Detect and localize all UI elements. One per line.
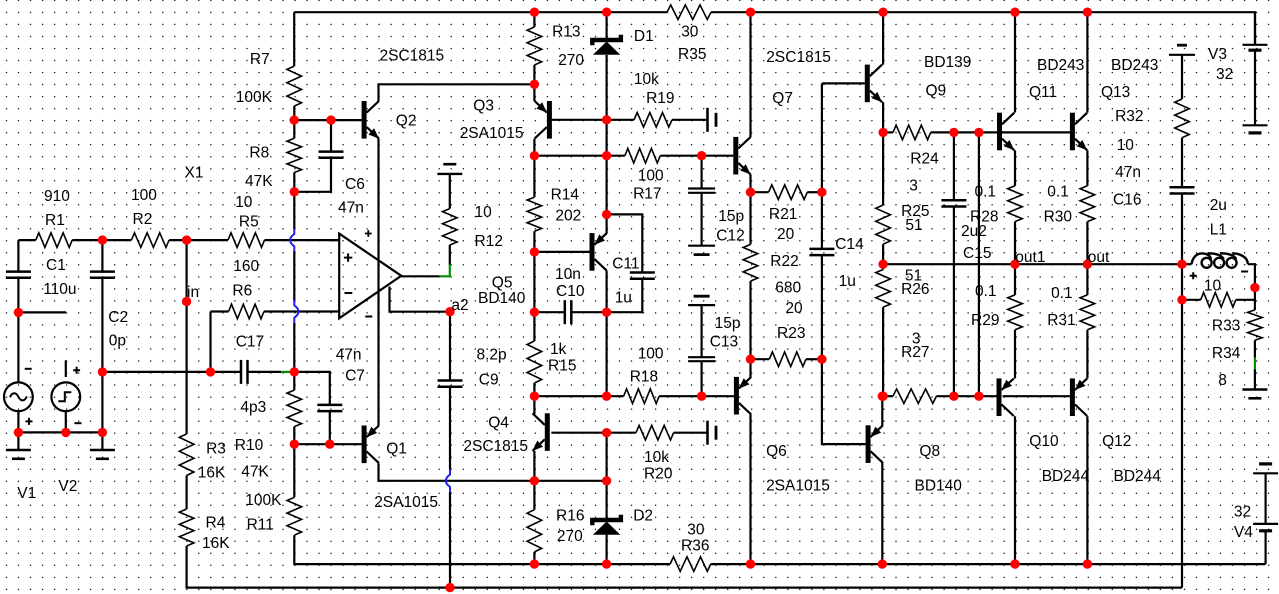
wire Q9 collector lead [882, 12, 884, 64]
junction R16 rail A [530, 559, 539, 568]
svg-text:R27: R27 [901, 344, 929, 361]
wire R11 top lead [293, 444, 295, 497]
junction V2 ground row [61, 428, 70, 437]
svg-text:R30: R30 [1044, 209, 1073, 226]
battery V4 [1253, 464, 1278, 531]
svg-text:15p: 15p [715, 315, 741, 332]
svg-text:R19: R19 [646, 90, 674, 107]
svg-text:C11: C11 [612, 256, 639, 273]
svg-text:100: 100 [131, 187, 157, 204]
svg-text:R21: R21 [769, 206, 797, 223]
wire R25 top lead [882, 132, 884, 205]
capacitor C10 [565, 300, 572, 324]
wire R24 lead right [931, 131, 954, 133]
wire left rail down to R7 [293, 12, 295, 66]
wire Q12 collector lead [1086, 416, 1088, 564]
wire Q2 emitter down through op-amp [377, 139, 379, 426]
transistor Q6 [734, 377, 739, 415]
transistor Q12 [1070, 378, 1075, 416]
svg-text:0p: 0p [109, 333, 126, 350]
svg-text:R8: R8 [249, 145, 269, 162]
svg-text:V4: V4 [1234, 524, 1253, 541]
wire R29 bottom lead [1014, 330, 1016, 379]
transistor Q9 [865, 65, 870, 103]
svg-text:10k: 10k [634, 71, 659, 88]
wire Q9 base lead [822, 82, 865, 84]
svg-text:51: 51 [905, 217, 922, 234]
svg-text:C6: C6 [345, 176, 365, 193]
svg-text:10: 10 [235, 194, 253, 211]
wire R23 lead right [806, 358, 822, 360]
junction C10 right Q5 collector [602, 308, 611, 317]
wire base row Q2 [294, 119, 361, 121]
svg-text:Q3: Q3 [473, 98, 494, 115]
svg-text:R35: R35 [678, 46, 706, 63]
svg-text:16K: 16K [198, 465, 226, 482]
wire L1 lead left [1182, 263, 1192, 265]
wire R24 node to Q11 base node [954, 131, 979, 133]
svg-text:0.1: 0.1 [1047, 184, 1069, 201]
svg-text:R24: R24 [910, 151, 939, 168]
resistor R22 [743, 244, 758, 281]
wire V2 top stub [65, 360, 67, 377]
svg-text:C1: C1 [46, 257, 66, 274]
op-amp X1 inner + sign [344, 253, 352, 261]
svg-text:BD244: BD244 [1042, 468, 1090, 485]
svg-text:0.1: 0.1 [975, 283, 997, 300]
junction R18 row left [602, 392, 611, 401]
wire R10 top lead [293, 372, 295, 390]
svg-text:3: 3 [909, 177, 918, 194]
wire green segment C17 to node [281, 371, 293, 373]
wire R32 chain top lead [1181, 55, 1183, 99]
svg-text:R13: R13 [552, 23, 580, 40]
wire R32 to C16 [1181, 138, 1183, 188]
junction Q2 collector R13 [530, 80, 539, 89]
wire V2 bottom lead [65, 411, 67, 432]
transistor Q11 [997, 113, 1002, 151]
wire R26 bottom lead [882, 307, 884, 396]
wire R22 bottom lead [749, 281, 751, 359]
wire R27 lead right [936, 395, 954, 397]
svg-text:C13: C13 [710, 334, 738, 351]
wire to ground below R33 [1254, 370, 1256, 390]
svg-text:V2: V2 [58, 478, 77, 495]
svg-text:Q7: Q7 [772, 90, 793, 107]
junction Q10 base node [974, 392, 983, 401]
junction R10 Q1 base [290, 440, 299, 449]
wire R30 bottom lead [1086, 222, 1088, 265]
svg-text:20: 20 [777, 226, 795, 243]
wire down to C17 node [293, 323, 295, 372]
plug P1 at R19 [706, 108, 709, 132]
wire Q6 collector lead [749, 415, 751, 565]
resistor R20 [636, 425, 674, 440]
junction C7 Q1 base [325, 440, 334, 449]
svg-text:100K: 100K [245, 492, 282, 509]
svg-text:BD140: BD140 [915, 477, 963, 494]
junction R8 C6 bottom [290, 187, 299, 196]
wire C7 bottom lead [329, 411, 331, 444]
svg-text:30: 30 [687, 522, 705, 539]
capacitor C17 [241, 360, 248, 384]
svg-text:C10: C10 [556, 283, 585, 300]
wire R34 lead right [1236, 299, 1255, 301]
wire out node down to rail B [1181, 264, 1183, 587]
wire Q11 emitter lead [1014, 150, 1016, 186]
capacitor top plate of R32 chain [1169, 45, 1195, 55]
wire R16 top lead [533, 481, 535, 510]
junction D2 top row [602, 476, 611, 485]
wire D1 top lead [605, 12, 607, 38]
svg-text:100: 100 [638, 346, 664, 363]
resistor R30 [1080, 186, 1095, 222]
wire R23 node down to Q8 base [822, 359, 866, 444]
wire R12 bottom lead [449, 245, 451, 265]
wire Q11 base row [979, 131, 1070, 133]
wire Q10 Q12 base row [1003, 395, 1070, 397]
junction D2 rail A [602, 559, 611, 568]
wire Q4 emitter lead [533, 451, 535, 481]
wire R16 bottom lead [533, 552, 535, 564]
wire C2 bottom lead [101, 278, 103, 433]
wire R27 row [883, 395, 893, 397]
wire R21 lead left [751, 191, 769, 193]
wire C15 bottom lead [953, 207, 955, 397]
svg-text:BD140: BD140 [478, 290, 526, 307]
svg-text:C7: C7 [345, 368, 365, 385]
svg-text:R18: R18 [630, 369, 658, 386]
wire C6 top lead [330, 120, 332, 152]
junction R25 out1 row [878, 260, 887, 269]
wire R22 top lead [749, 192, 751, 244]
resistor R32 [1175, 99, 1190, 138]
wire Q5 node down to R18 row [605, 312, 607, 396]
wire R19 lead left [607, 119, 634, 121]
junction R17 row [602, 151, 611, 160]
svg-text:270: 270 [557, 528, 583, 545]
transistor Q3 [547, 101, 552, 139]
wire C13 bottom lead [700, 361, 702, 396]
wire hop at Q1 collector row crossing [446, 469, 450, 492]
junction V1 C1 stub [14, 308, 23, 317]
svg-text:1k: 1k [550, 341, 567, 358]
wire row R15 to R18 [534, 395, 623, 397]
svg-text:C16: C16 [1113, 192, 1141, 209]
junction Q12 collector rail A [1083, 559, 1092, 568]
svg-text:110u: 110u [43, 281, 76, 298]
junction top rail D1 [602, 8, 611, 17]
svg-text:47K: 47K [241, 464, 269, 481]
resistor R33 [1248, 310, 1263, 340]
wire Q2 collector to R13 node [379, 84, 535, 101]
capacitor C14 [809, 249, 834, 255]
resistor R23 [769, 352, 806, 367]
svg-text:Q9: Q9 [926, 83, 947, 100]
wire ground row V1 V2 C2 [18, 431, 102, 433]
transistor Q10 [997, 378, 1002, 416]
junction top rail Q13 [1083, 8, 1092, 17]
resistor R24 [893, 125, 931, 140]
svg-text:R15: R15 [548, 358, 576, 375]
svg-text:D2: D2 [633, 508, 653, 525]
svg-text:R2: R2 [133, 211, 153, 228]
junction in node [182, 297, 191, 306]
wire top rail right of R35 [711, 12, 1255, 45]
junction C2 ground [98, 428, 107, 437]
junction C13 bottom [697, 392, 706, 401]
svg-text:C9: C9 [479, 372, 499, 389]
wire R24 lead left [883, 131, 893, 133]
junction R14 Q5 base [530, 247, 539, 256]
wire stub V1 node to right [18, 311, 66, 313]
wire C14 bottom lead [821, 255, 823, 359]
svg-text:10k: 10k [644, 449, 669, 466]
svg-text:32: 32 [1234, 504, 1251, 521]
wire Q3 collector lead [533, 139, 535, 156]
transistor Q4 [545, 413, 550, 451]
resistor R15 [527, 341, 542, 383]
resistor R4 [179, 509, 194, 546]
svg-text:Q4: Q4 [488, 415, 509, 432]
wire C6 bottom lead [294, 158, 331, 192]
wire R17 lead left [607, 155, 625, 157]
svg-text:2u2: 2u2 [961, 223, 987, 240]
svg-text:8: 8 [1218, 372, 1227, 389]
wire Q5 collector lead [605, 271, 607, 313]
capacitor C6 [319, 152, 344, 158]
svg-text:BD139: BD139 [924, 54, 971, 71]
svg-text:R16: R16 [556, 508, 584, 525]
junction top rail Q9 [878, 8, 887, 17]
resistor R19 [634, 113, 672, 128]
wire Q8 collector lead [881, 463, 883, 564]
svg-text:BD243: BD243 [1111, 57, 1158, 74]
wire R31 bottom lead [1086, 330, 1088, 379]
resistor R16 [527, 510, 542, 552]
ground above R12 [443, 163, 456, 166]
wire R15 top lead [533, 312, 535, 341]
junction Q8 emitter row [878, 392, 887, 401]
svg-text:Q8: Q8 [919, 443, 940, 460]
svg-text:32: 32 [1216, 66, 1233, 83]
wire Q3 emitter lead [533, 84, 535, 101]
wire Q4 collector lead [533, 396, 535, 414]
resistor R34 [1201, 293, 1236, 308]
svg-text:R11: R11 [247, 517, 274, 534]
voltage source V1 + sign [26, 418, 33, 425]
junction D1 R19 Q3 base [602, 115, 611, 124]
wire D1 node down to Q5 node [605, 120, 607, 215]
wire C10 lead left [534, 311, 564, 313]
resistor R35 [667, 5, 711, 20]
svg-text:0.1: 0.1 [1051, 285, 1073, 302]
svg-text:Q11: Q11 [1029, 84, 1057, 101]
svg-text:BD244: BD244 [1114, 468, 1162, 485]
wire R5 to op-amp + input [265, 239, 340, 241]
junction R21 C14 [817, 188, 826, 197]
svg-text:100K: 100K [236, 89, 273, 106]
voltage source V2 [51, 382, 80, 411]
junction Q3 collector row [530, 151, 539, 160]
junction C10 row left [530, 308, 539, 317]
svg-text:L1: L1 [1210, 221, 1227, 238]
wire op-amp V- branch to a2 [390, 287, 451, 312]
wire row Q3C to R17 [534, 155, 606, 157]
junction C17 R10 node [290, 367, 299, 376]
junction Q8 collector rail A [878, 559, 887, 568]
svg-text:30: 30 [681, 23, 699, 40]
wire C15 top lead [953, 132, 955, 200]
capacitor C13 [688, 296, 715, 361]
wire out1 row left [883, 263, 1015, 265]
svg-text:4p3: 4p3 [240, 399, 266, 416]
svg-text:Q2: Q2 [396, 112, 417, 129]
svg-text:R26: R26 [901, 281, 929, 298]
svg-text:R29: R29 [971, 312, 999, 329]
wire R8 to node [293, 173, 295, 230]
svg-text:R32: R32 [1115, 108, 1143, 125]
svg-text:Q5: Q5 [492, 275, 513, 292]
svg-text:a2: a2 [451, 297, 468, 314]
svg-text:C14: C14 [835, 236, 864, 253]
junction input R1 R2 C2 [98, 235, 107, 244]
resistor R36 [670, 557, 711, 572]
resistor R7 [287, 66, 302, 106]
transistor Q2 [362, 101, 367, 139]
resistor R11 [287, 497, 302, 535]
junction R15 bottom row [530, 392, 539, 401]
svg-text:R14: R14 [551, 187, 580, 204]
svg-text:R3: R3 [206, 440, 226, 457]
svg-text:Q13: Q13 [1101, 84, 1130, 101]
wire R18 to C13 node [659, 395, 701, 397]
op-amp X1 outer + sign [365, 230, 372, 237]
svg-text:D1: D1 [634, 28, 654, 45]
wire D2 top lead [605, 481, 607, 519]
resistor R25 [876, 205, 891, 244]
junction out [1083, 260, 1092, 269]
svg-text:10n: 10n [555, 266, 581, 283]
wire R20 lead right [674, 432, 708, 434]
svg-text:47n: 47n [1115, 164, 1141, 181]
junction Q4 base R20 [602, 428, 611, 437]
wire C13 node to Q6 base [702, 395, 734, 397]
svg-text:1u: 1u [839, 273, 856, 290]
wire R25 bottom lead [882, 244, 884, 264]
svg-text:V3: V3 [1208, 46, 1227, 63]
svg-text:47n: 47n [338, 200, 364, 217]
transistor Q13 [1070, 113, 1075, 151]
resistor R10 [287, 390, 302, 427]
svg-text:2SA1015: 2SA1015 [766, 477, 830, 494]
svg-text:10: 10 [475, 204, 493, 221]
svg-text:R1: R1 [45, 212, 65, 229]
diode D2 [592, 515, 621, 526]
wire op-amp + input lead [330, 239, 339, 241]
wire V4 bottom lead [1264, 531, 1266, 564]
capacitor C2 [90, 272, 115, 278]
svg-text:R20: R20 [644, 466, 673, 483]
junction R34 row [1177, 295, 1186, 304]
battery V3 [1243, 45, 1268, 133]
inductor L1 + sign [1190, 272, 1197, 279]
svg-text:202: 202 [555, 208, 581, 225]
transistor Q5 [590, 233, 595, 271]
wire R33 bottom lead [1254, 340, 1256, 358]
wire row Q4 emitter to D2 [534, 480, 606, 482]
ground under R33 [1254, 388, 1256, 390]
wire Q13 emitter lead [1086, 150, 1088, 186]
resistor R5 [228, 233, 265, 248]
junction C12 top [697, 151, 706, 160]
junction R7 R8 [290, 115, 299, 124]
resistor R18 [624, 389, 660, 404]
wire R3 to R4 [186, 476, 188, 510]
resistor R2 [131, 233, 169, 248]
op-amp X1 [339, 234, 401, 319]
svg-text:Q1: Q1 [386, 441, 407, 458]
wire Q13 collector lead [1086, 12, 1088, 112]
svg-text:2SA1015: 2SA1015 [460, 125, 524, 142]
resistor R14 [527, 197, 542, 231]
svg-text:2SC1815: 2SC1815 [766, 49, 831, 66]
wire C9 lead below [449, 387, 451, 470]
junction Q10 collector rail A [1010, 559, 1019, 568]
wire C17 right lead [248, 371, 282, 373]
resistor R12 [443, 209, 458, 245]
junction V1 ground [14, 428, 23, 437]
junction L1 R33 [1250, 283, 1259, 292]
wire R20 lead left [607, 432, 636, 434]
wire out row right [1087, 263, 1182, 265]
svg-text:910: 910 [44, 188, 70, 205]
junction Q6 collector rail A [746, 559, 755, 568]
wire D2 bottom lead [605, 535, 607, 564]
junction R26 R27 [878, 392, 887, 401]
svg-text:1u: 1u [615, 289, 632, 306]
junction Q9 emitter R24 [878, 128, 887, 137]
wire Q11 collector lead [1014, 12, 1016, 112]
wire a2 down to C9 [449, 312, 451, 381]
svg-text:Q10: Q10 [1029, 433, 1059, 450]
wire R26 top lead [882, 264, 884, 269]
capacitor C15 [941, 200, 966, 206]
voltage source V2 + sign [73, 367, 80, 374]
wire R10 bottom lead [293, 427, 295, 445]
svg-text:R36: R36 [681, 537, 709, 554]
voltage source V1 - sign [25, 368, 32, 370]
junction input R2 R5 in [182, 235, 191, 244]
capacitor C11 [630, 273, 655, 279]
svg-text:47n: 47n [336, 347, 362, 364]
wire R21 lead right [807, 191, 822, 193]
wire C1 top lead [17, 240, 19, 272]
svg-text:R5: R5 [239, 213, 259, 230]
wire Q1 collector row [379, 463, 535, 480]
resistor R3 [179, 434, 194, 476]
svg-text:270: 270 [558, 52, 584, 69]
wire Q5 node to C11 [607, 214, 643, 272]
wire V3 top lead [1254, 12, 1256, 45]
wire R6 left lead [209, 312, 211, 372]
svg-text:R4: R4 [206, 515, 226, 532]
svg-text:2u: 2u [1210, 197, 1227, 214]
wire hop at R5 crossing [290, 229, 294, 252]
wire Q3 base lead [552, 119, 607, 121]
svg-text:0.1: 0.1 [975, 184, 997, 201]
junction Q7 emitter R21 [746, 188, 755, 197]
